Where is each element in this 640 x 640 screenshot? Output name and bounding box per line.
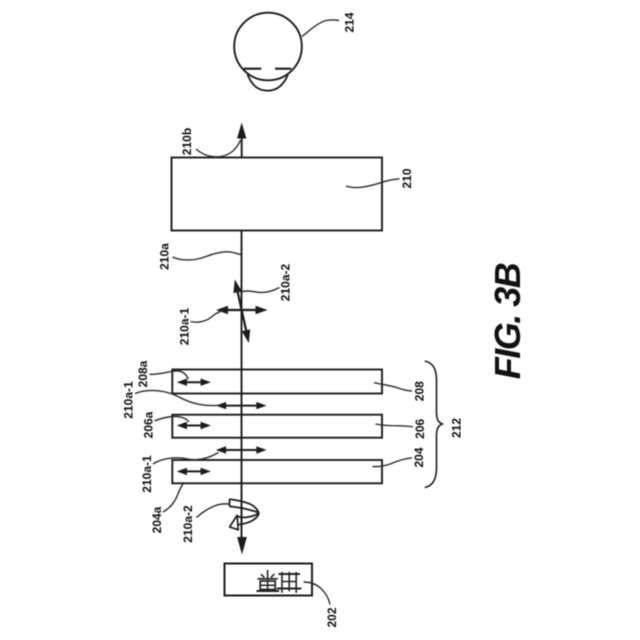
svg-text:212: 212 <box>450 418 464 438</box>
svg-text:210: 210 <box>400 168 414 188</box>
svg-text:202: 202 <box>325 607 339 627</box>
svg-text:210a-2: 210a-2 <box>181 505 195 543</box>
svg-text:208: 208 <box>413 381 427 401</box>
svg-text:210a-1: 210a-1 <box>122 381 136 419</box>
svg-text:214: 214 <box>343 12 357 32</box>
svg-text:204a: 204a <box>150 506 164 533</box>
svg-text:208a: 208a <box>136 360 150 387</box>
svg-text:210a: 210a <box>157 243 171 270</box>
svg-text:206a: 206a <box>141 411 155 438</box>
svg-text:210a-1: 210a-1 <box>178 307 192 345</box>
svg-text:FIG. 3B: FIG. 3B <box>487 263 528 379</box>
svg-text:206: 206 <box>413 418 427 438</box>
svg-text:210a-1: 210a-1 <box>140 455 154 493</box>
svg-text:210a-2: 210a-2 <box>279 263 293 301</box>
svg-text:204: 204 <box>412 447 426 467</box>
svg-text:210b: 210b <box>180 128 194 155</box>
